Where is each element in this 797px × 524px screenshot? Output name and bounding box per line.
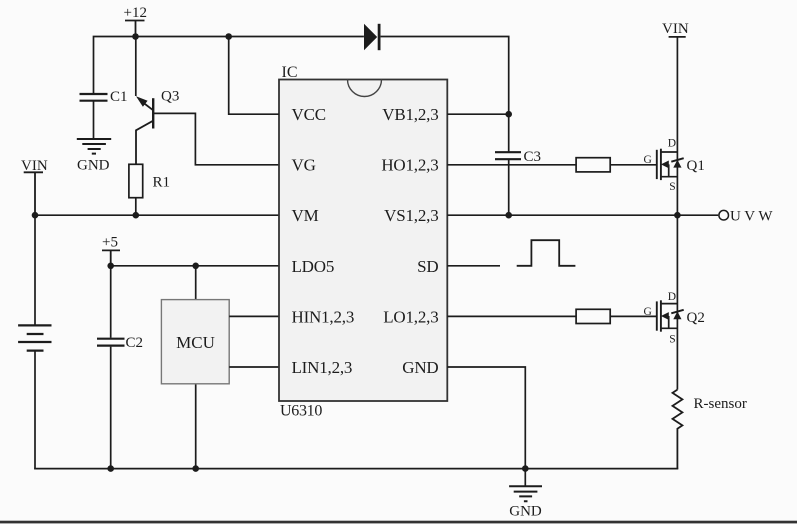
svg-text:Q3: Q3 [161, 89, 179, 105]
resistor (Q1 gate) [576, 158, 610, 172]
power terminal +5 [102, 235, 120, 266]
svg-text:R1: R1 [153, 175, 171, 191]
wire HO line [447, 164, 657, 166]
svg-text:HIN1,2,3: HIN1,2,3 [292, 307, 355, 326]
node: MCU / bottom rail junction [192, 465, 199, 472]
node: C2 / bottom rail junction [107, 465, 114, 472]
wire top rail [94, 37, 509, 153]
wire Q3 base to VG pin [153, 113, 279, 164]
resistor (Q2 gate) [576, 309, 610, 323]
wire R1 to VM line [135, 198, 137, 216]
MOSFET Q2 [644, 291, 705, 346]
wire MCU top [195, 266, 197, 300]
svg-text:IC: IC [282, 64, 298, 81]
power terminal +12 [124, 5, 147, 37]
node: output junction [674, 212, 681, 219]
svg-text:+12: +12 [124, 5, 147, 21]
capacitor C3 [495, 149, 541, 165]
svg-text:R-sensor: R-sensor [694, 396, 747, 412]
svg-text:G: G [644, 154, 652, 166]
svg-text:S: S [669, 334, 675, 346]
svg-text:GND: GND [402, 358, 438, 377]
svg-text:U6310: U6310 [280, 403, 322, 420]
wire VM line [35, 214, 279, 216]
IC pin labels left [292, 105, 355, 377]
SD pulse waveform [517, 240, 576, 266]
ground (bottom) [509, 469, 542, 520]
node: R1 / VM junction [133, 212, 140, 219]
wire VS / output line [447, 214, 718, 216]
svg-text:LDO5: LDO5 [292, 257, 335, 276]
wire LDO5 line [111, 265, 279, 267]
node U V W (open terminal) [719, 209, 773, 225]
node: VS junction [505, 212, 512, 219]
wire VB line [447, 113, 508, 115]
svg-text:VIN: VIN [662, 21, 689, 37]
wire C2 branch [110, 266, 112, 469]
svg-text:G: G [644, 306, 652, 318]
capacitor C2 [97, 335, 143, 351]
wire VIN rail through Q1/Q2 [676, 37, 678, 390]
ground (below C1) [77, 139, 111, 174]
wire VCC [229, 37, 279, 115]
wire SD stub [447, 265, 500, 267]
MCU block [161, 300, 229, 384]
wire MCU to HIN [229, 315, 279, 317]
svg-text:GND: GND [77, 158, 110, 174]
node: MCU top junction [192, 263, 199, 270]
svg-text:Q2: Q2 [687, 310, 705, 326]
svg-text:LO1,2,3: LO1,2,3 [383, 307, 438, 326]
svg-text:HO1,2,3: HO1,2,3 [381, 156, 438, 175]
wire LO line [447, 315, 657, 317]
svg-text:VG: VG [292, 156, 316, 175]
wire MCU to LIN [229, 366, 279, 368]
svg-text:S: S [669, 181, 675, 193]
svg-text:VM: VM [292, 206, 319, 225]
capacitor C1 [80, 89, 128, 105]
svg-text:GND: GND [509, 504, 542, 520]
svg-text:MCU: MCU [176, 333, 215, 352]
svg-text:SD: SD [417, 257, 438, 276]
wire MCU bottom [195, 384, 197, 469]
svg-text:Q1: Q1 [687, 158, 705, 174]
IC pin labels right [381, 105, 438, 377]
svg-text:+5: +5 [102, 235, 118, 251]
svg-text:C2: C2 [126, 335, 144, 351]
svg-text:U V W: U V W [730, 209, 773, 225]
IC U6310 block [279, 80, 447, 402]
node: VIN / VM junction [32, 212, 39, 219]
VIN terminal (left) [21, 158, 48, 215]
MOSFET Q1 [644, 138, 705, 193]
svg-text:C1: C1 [110, 89, 128, 105]
node: GND junction [522, 465, 529, 472]
svg-text:LIN1,2,3: LIN1,2,3 [292, 358, 353, 377]
svg-text:D: D [668, 138, 676, 150]
transistor Q3 [136, 37, 180, 165]
wire C3 bottom [508, 159, 510, 215]
wire GND pin to bottom rail [447, 367, 525, 469]
VIN terminal (right) [662, 21, 689, 37]
node: +5 / LDO5 junction [107, 263, 114, 270]
svg-text:VCC: VCC [292, 105, 326, 124]
wire C1 drop [93, 102, 95, 139]
node: +12 rail junction [132, 33, 139, 40]
svg-text:VS1,2,3: VS1,2,3 [384, 206, 438, 225]
node: VCC tap junction [225, 33, 232, 40]
battery [18, 215, 51, 468]
wire bottom rail [34, 468, 678, 470]
resistor R-sensor [673, 390, 747, 469]
node: VB junction [505, 111, 512, 118]
svg-text:VB1,2,3: VB1,2,3 [382, 105, 438, 124]
svg-text:D: D [668, 291, 676, 303]
resistor R1 [129, 164, 170, 197]
svg-text:C3: C3 [524, 149, 542, 165]
diode D1 [364, 24, 381, 50]
